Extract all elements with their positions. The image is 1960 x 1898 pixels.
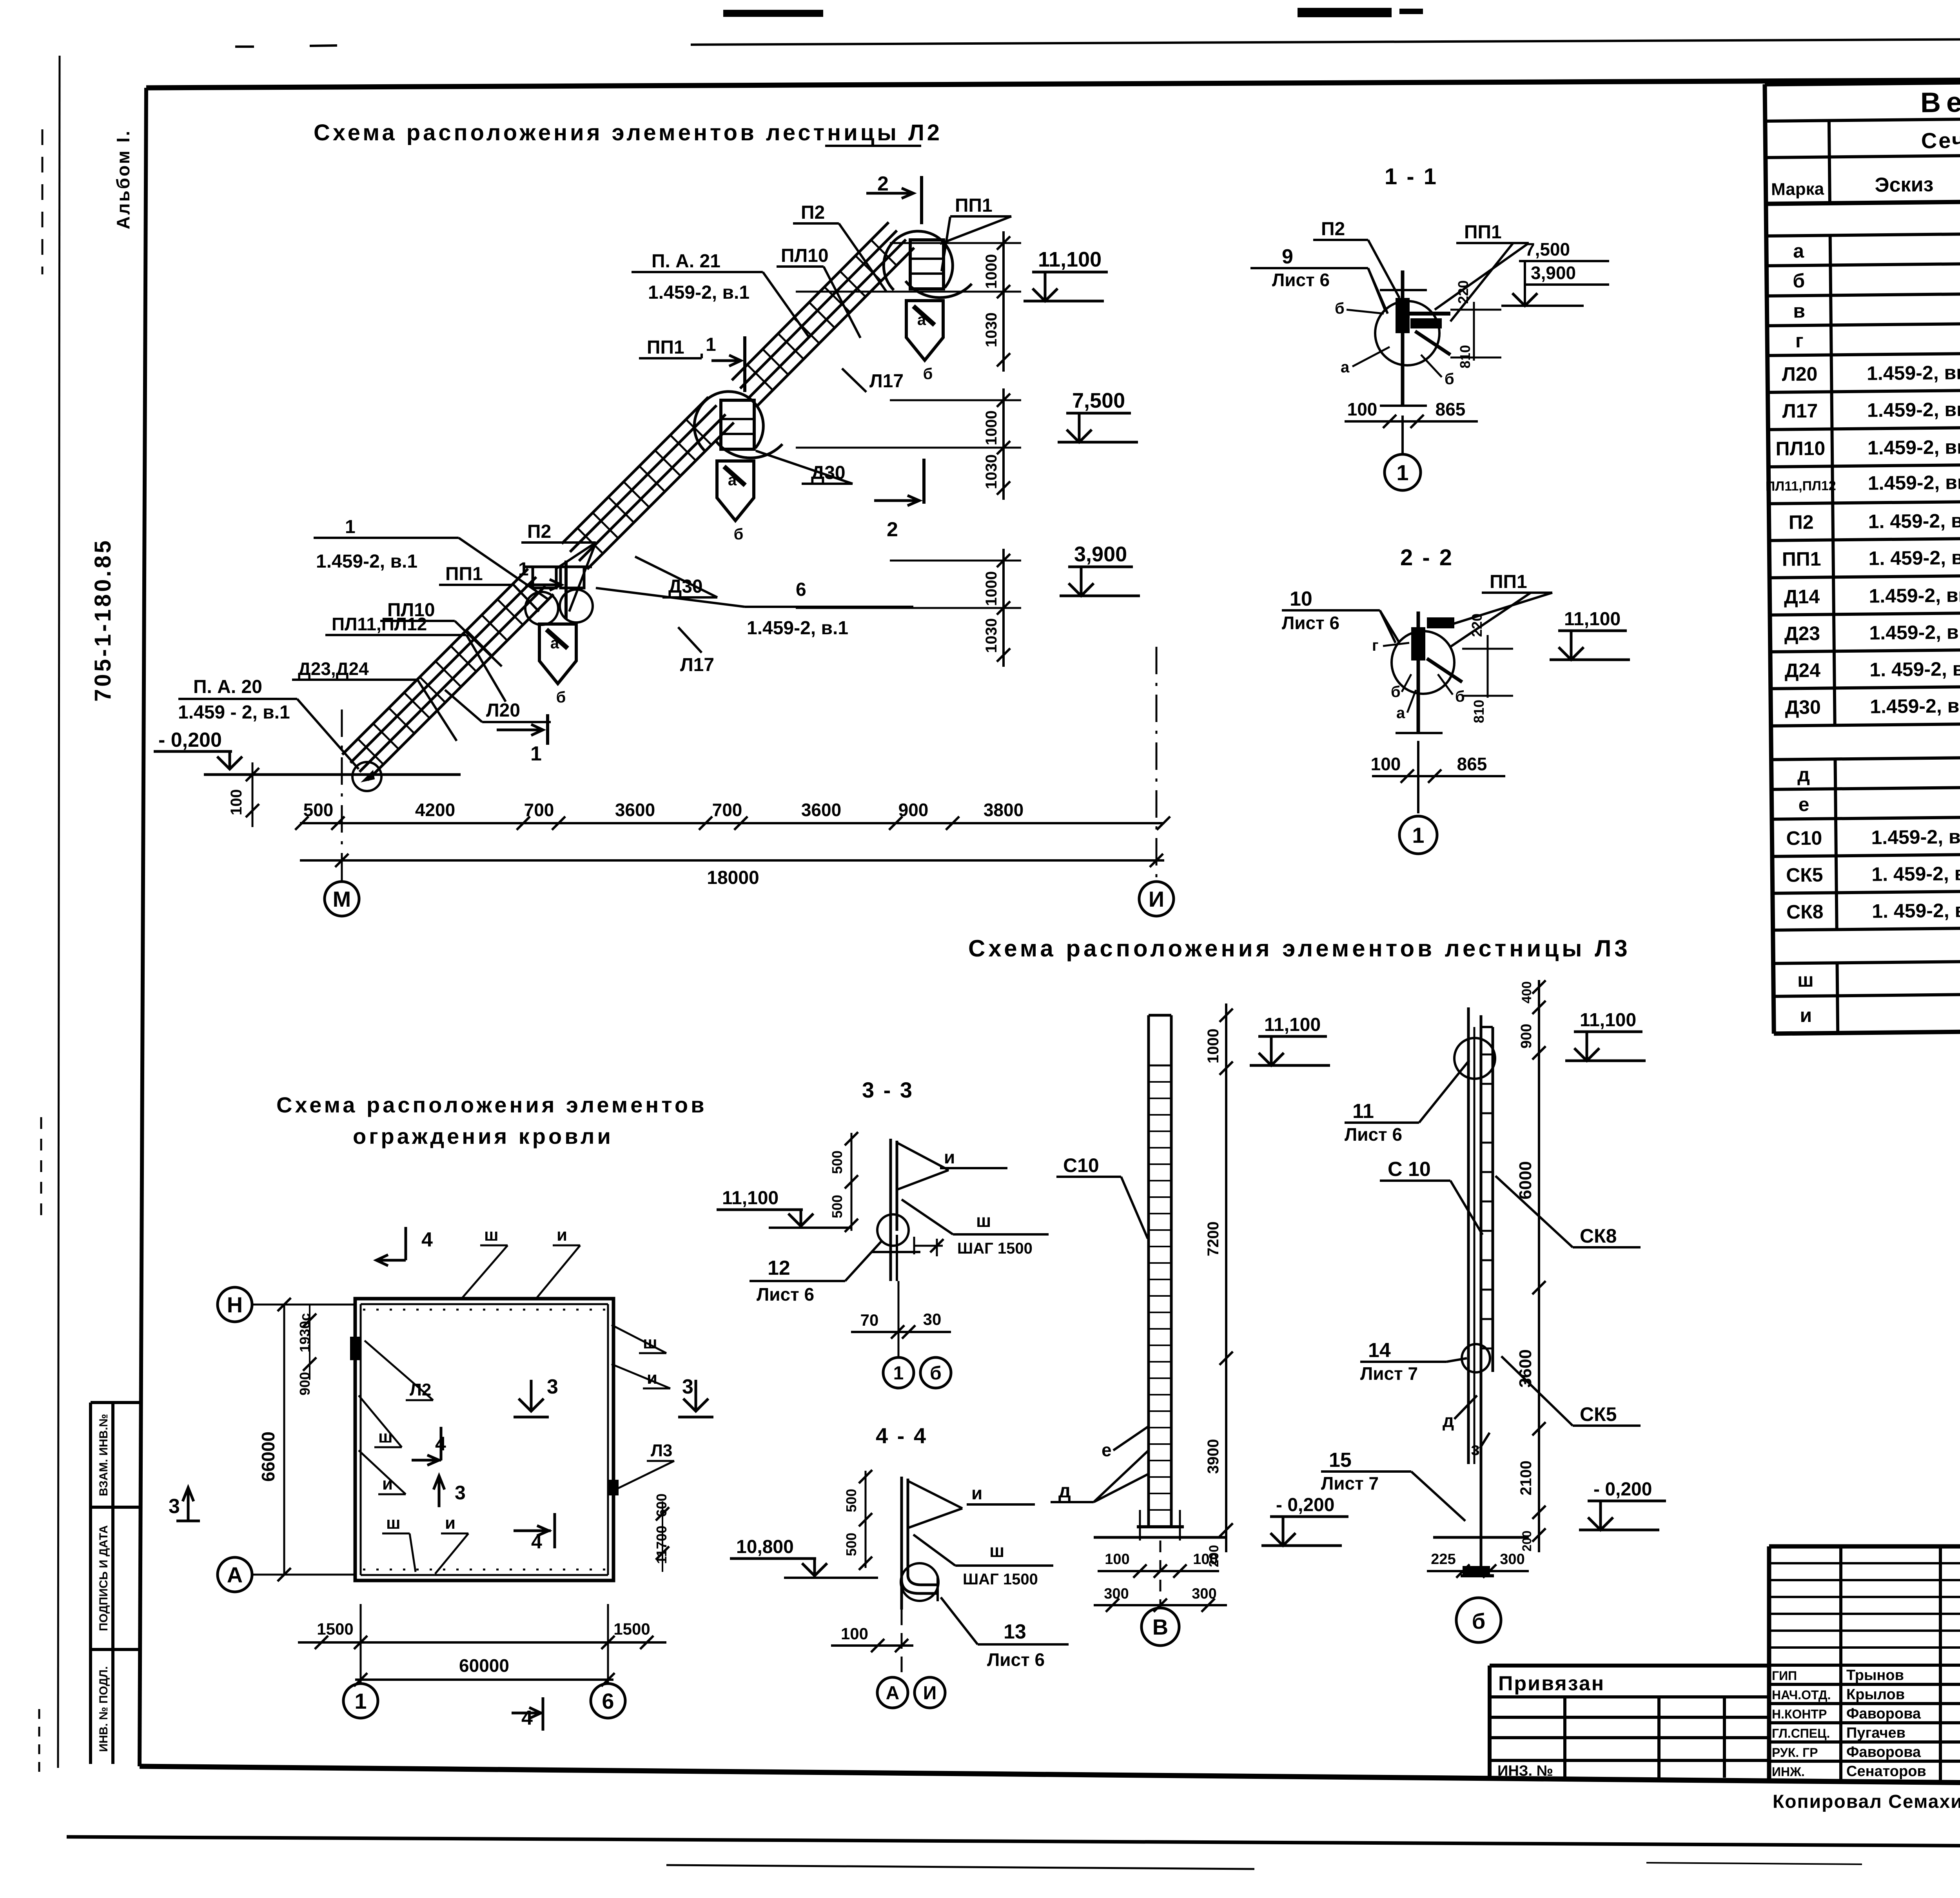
svg-text:500: 500 xyxy=(843,1489,859,1512)
svg-text:Эскиз: Эскиз xyxy=(1875,173,1933,196)
svg-text:11: 11 xyxy=(1352,1100,1374,1123)
svg-text:1030: 1030 xyxy=(983,312,1000,347)
svg-text:НАЧ.ОТД.: НАЧ.ОТД. xyxy=(1772,1688,1831,1702)
left margin stamp strip xyxy=(89,1403,92,1764)
svg-text:ИНЖ.: ИНЖ. xyxy=(1772,1765,1805,1779)
svg-text:ПЛ11,ПЛ12: ПЛ11,ПЛ12 xyxy=(332,614,427,634)
svg-text:6000: 6000 xyxy=(1516,1161,1535,1199)
svg-text:810: 810 xyxy=(1471,700,1487,723)
svg-text:200: 200 xyxy=(1520,1531,1534,1551)
svg-text:1.459-2, вып. 2: 1.459-2, вып. 2 xyxy=(1868,471,1960,494)
title block xyxy=(1767,1546,1771,1783)
svg-text:100: 100 xyxy=(1193,1551,1218,1568)
svg-text:500: 500 xyxy=(303,800,334,820)
svg-text:1.459-2, вып. 1: 1.459-2, вып. 1 xyxy=(1869,621,1960,644)
svg-text:з: з xyxy=(1471,1439,1480,1459)
svg-text:ПП1: ПП1 xyxy=(647,337,684,358)
svg-text:220: 220 xyxy=(1455,280,1471,304)
svg-text:300: 300 xyxy=(1104,1586,1129,1602)
svg-text:15: 15 xyxy=(1329,1449,1352,1472)
svg-text:1.459-2, вып. 2: 1.459-2, вып. 2 xyxy=(1867,361,1960,384)
svg-text:4 - 4: 4 - 4 xyxy=(876,1423,927,1448)
svg-text:ш: ш xyxy=(484,1225,499,1245)
svg-text:220: 220 xyxy=(1469,613,1485,637)
svg-text:865: 865 xyxy=(1457,754,1487,774)
svg-text:1000: 1000 xyxy=(1205,1029,1222,1063)
svg-text:1000: 1000 xyxy=(983,571,1000,606)
svg-text:Л20: Л20 xyxy=(486,700,520,721)
svg-text:1. 459-2, вып.2: 1. 459-2, вып.2 xyxy=(1871,862,1960,885)
svg-text:ПЛ10: ПЛ10 xyxy=(781,245,829,266)
svg-text:2 - 2: 2 - 2 xyxy=(1400,545,1454,570)
svg-text:6: 6 xyxy=(602,1689,614,1713)
svg-text:ШАГ 1500: ШАГ 1500 xyxy=(957,1240,1033,1257)
svg-text:г: г xyxy=(1372,637,1379,654)
svg-text:1000: 1000 xyxy=(983,410,1000,445)
svg-text:4: 4 xyxy=(421,1228,433,1251)
svg-text:1500: 1500 xyxy=(613,1620,650,1638)
svg-text:Н: Н xyxy=(227,1292,243,1317)
flight 3 xyxy=(757,248,914,406)
svg-text:- 0,200: - 0,200 xyxy=(158,729,222,751)
svg-text:1.459-2, в.1: 1.459-2, в.1 xyxy=(747,618,848,639)
svg-text:1030: 1030 xyxy=(983,454,1000,489)
svg-text:П. А. 21: П. А. 21 xyxy=(652,251,720,272)
svg-text:ПП1: ПП1 xyxy=(1464,222,1502,243)
svg-text:ш: ш xyxy=(989,1541,1004,1561)
svg-text:ограждения кровли: ограждения кровли xyxy=(353,1124,613,1149)
svg-text:100: 100 xyxy=(1105,1551,1129,1568)
svg-text:Трынов: Трынов xyxy=(1846,1667,1904,1684)
svg-text:9: 9 xyxy=(1282,245,1293,268)
svg-text:б: б xyxy=(1793,270,1805,292)
svg-text:2: 2 xyxy=(887,518,898,541)
svg-text:70: 70 xyxy=(860,1311,879,1329)
svg-text:1.459-2, в.1: 1.459-2, в.1 xyxy=(316,551,417,572)
svg-text:- 0,200: - 0,200 xyxy=(1593,1479,1652,1500)
svg-text:1000: 1000 xyxy=(983,254,1000,289)
svg-text:60000: 60000 xyxy=(459,1655,509,1676)
svg-text:Ведомость элементов: Ведомость элементов xyxy=(1920,83,1960,118)
svg-text:СК5: СК5 xyxy=(1580,1403,1617,1425)
svg-text:1500: 1500 xyxy=(317,1620,353,1638)
svg-text:П2: П2 xyxy=(801,202,825,223)
svg-text:С 10: С 10 xyxy=(1388,1158,1431,1181)
svg-text:Лист 6: Лист 6 xyxy=(757,1284,814,1305)
svg-text:1. 459-2, вып. 2: 1. 459-2, вып. 2 xyxy=(1868,509,1960,533)
svg-text:7,500: 7,500 xyxy=(1072,389,1125,412)
svg-text:б: б xyxy=(1455,688,1465,705)
svg-text:д: д xyxy=(1058,1480,1071,1502)
svg-text:и: и xyxy=(557,1225,567,1245)
svg-text:3,900: 3,900 xyxy=(1531,263,1576,283)
svg-text:в: в xyxy=(1793,300,1805,322)
svg-text:6: 6 xyxy=(796,579,806,600)
svg-text:100: 100 xyxy=(228,789,245,815)
svg-text:Фаворова: Фаворова xyxy=(1846,1706,1921,1722)
svg-text:Сенаторов: Сенаторов xyxy=(1846,1763,1926,1780)
L2 right dim chains xyxy=(1002,231,1005,372)
svg-text:Привязан: Привязан xyxy=(1498,1672,1605,1695)
svg-text:11,100: 11,100 xyxy=(722,1188,779,1208)
svg-text:1: 1 xyxy=(706,334,716,355)
paper top edge line xyxy=(691,37,1960,45)
svg-text:г: г xyxy=(1795,330,1804,352)
svg-text:3 - 3: 3 - 3 xyxy=(862,1078,914,1102)
svg-text:б: б xyxy=(1335,300,1345,317)
flight 2 xyxy=(587,423,734,569)
svg-text:500: 500 xyxy=(829,1150,845,1174)
svg-text:225: 225 xyxy=(1431,1551,1455,1568)
svg-text:Л20: Л20 xyxy=(1782,363,1817,385)
svg-text:12: 12 xyxy=(768,1257,790,1279)
svg-text:Лист 7: Лист 7 xyxy=(1321,1473,1379,1493)
svg-text:- 0,200: - 0,200 xyxy=(1276,1495,1334,1515)
svg-text:Лист 7: Лист 7 xyxy=(1360,1363,1418,1384)
svg-text:а: а xyxy=(917,311,926,328)
svg-text:СК8: СК8 xyxy=(1580,1225,1617,1247)
svg-text:3600: 3600 xyxy=(1516,1349,1535,1388)
svg-text:А: А xyxy=(227,1562,243,1587)
column C10 elevation xyxy=(1147,1015,1150,1527)
svg-text:Схема расположения элементов л: Схема расположения элементов лестницы Л3 xyxy=(968,935,1631,962)
svg-text:30: 30 xyxy=(923,1310,942,1328)
svg-text:СК5: СК5 xyxy=(1786,864,1823,886)
svg-text:И: И xyxy=(1149,887,1164,911)
svg-text:и: и xyxy=(445,1513,456,1533)
drawing frame left xyxy=(140,88,146,1766)
svg-text:10,800: 10,800 xyxy=(736,1537,794,1557)
ladder SK8/SK5 elevation xyxy=(1467,1007,1470,1464)
svg-text:ш: ш xyxy=(386,1513,401,1533)
svg-text:а: а xyxy=(1341,359,1350,376)
svg-text:500: 500 xyxy=(829,1195,845,1218)
svg-text:1.459-2, вып. 2: 1.459-2, вып. 2 xyxy=(1867,398,1960,421)
svg-text:ПП1: ПП1 xyxy=(955,195,993,216)
svg-text:1: 1 xyxy=(893,1363,904,1384)
svg-text:Н.КОНТР: Н.КОНТР xyxy=(1772,1707,1827,1721)
svg-text:1: 1 xyxy=(1396,460,1408,485)
svg-text:П2: П2 xyxy=(1789,511,1814,533)
svg-text:3600: 3600 xyxy=(615,800,655,820)
svg-text:ПП1: ПП1 xyxy=(445,564,483,584)
svg-text:865: 865 xyxy=(1436,399,1466,419)
svg-text:1. 459-2, вып.2: 1. 459-2, вып.2 xyxy=(1872,899,1960,922)
flight 1 xyxy=(368,594,554,780)
svg-text:Л3: Л3 xyxy=(651,1441,672,1460)
svg-text:Л17: Л17 xyxy=(869,371,904,392)
svg-text:д: д xyxy=(1443,1410,1454,1431)
svg-text:7,500: 7,500 xyxy=(1525,239,1570,259)
svg-text:и: и xyxy=(944,1147,955,1167)
svg-text:д: д xyxy=(1797,764,1810,786)
svg-text:3: 3 xyxy=(547,1375,558,1398)
svg-text:7200: 7200 xyxy=(1205,1221,1222,1256)
svg-text:Д30: Д30 xyxy=(1785,696,1821,719)
svg-text:С10: С10 xyxy=(1063,1154,1099,1176)
svg-text:ВЗАМ. ИНВ.№: ВЗАМ. ИНВ.№ xyxy=(97,1414,110,1496)
privyazan table xyxy=(1490,1664,1769,1668)
svg-text:Лист 6: Лист 6 xyxy=(1272,270,1330,290)
svg-text:ГЛ.СПЕЦ.: ГЛ.СПЕЦ. xyxy=(1772,1726,1830,1740)
svg-text:1.459-2, вып.1: 1.459-2, вып.1 xyxy=(1871,825,1960,848)
svg-text:14: 14 xyxy=(1368,1339,1391,1362)
svg-text:СК8: СК8 xyxy=(1786,901,1824,923)
svg-text:б: б xyxy=(923,365,933,383)
svg-text:Д23: Д23 xyxy=(1784,622,1820,645)
svg-text:б: б xyxy=(1391,683,1401,700)
svg-text:1. 459-2, вып. 2: 1. 459-2, вып. 2 xyxy=(1868,546,1960,570)
roof plan square xyxy=(355,1299,613,1580)
paper left edge lines xyxy=(58,56,60,1768)
svg-text:700: 700 xyxy=(524,800,554,820)
svg-text:100: 100 xyxy=(1347,399,1377,419)
svg-text:ПП1: ПП1 xyxy=(1490,572,1527,592)
svg-text:ш: ш xyxy=(378,1427,393,1446)
elements list table xyxy=(1762,77,1960,1034)
landing 1 xyxy=(533,567,556,588)
svg-text:РУК. ГР: РУК. ГР xyxy=(1772,1746,1818,1760)
svg-text:700: 700 xyxy=(712,800,742,820)
svg-text:1: 1 xyxy=(530,742,542,765)
svg-text:С10: С10 xyxy=(1786,827,1822,849)
svg-text:18000: 18000 xyxy=(707,867,759,888)
svg-text:Л17: Л17 xyxy=(680,655,714,675)
svg-text:П2: П2 xyxy=(1321,219,1345,240)
svg-text:и: и xyxy=(647,1368,657,1388)
svg-text:Альбом I.: Альбом I. xyxy=(113,129,133,229)
svg-text:1.459 - 2, в.1: 1.459 - 2, в.1 xyxy=(178,702,290,723)
paper bottom edge line xyxy=(67,1837,1960,1849)
svg-text:а: а xyxy=(1396,704,1405,722)
svg-text:4200: 4200 xyxy=(415,800,455,820)
svg-text:10: 10 xyxy=(1290,588,1312,610)
svg-text:13: 13 xyxy=(1004,1620,1026,1643)
svg-text:1030: 1030 xyxy=(983,618,1000,653)
svg-text:11,100: 11,100 xyxy=(1038,248,1102,271)
svg-text:1: 1 xyxy=(345,517,356,537)
svg-text:ш: ш xyxy=(1797,969,1814,991)
svg-text:Схема расположения элементов: Схема расположения элементов лестницы Л2 xyxy=(314,120,942,145)
landing 3 (top) xyxy=(910,240,944,289)
svg-text:ИНВ. № ПОДЛ.: ИНВ. № ПОДЛ. xyxy=(97,1666,110,1752)
svg-text:500: 500 xyxy=(843,1533,859,1556)
svg-text:е: е xyxy=(1798,793,1809,815)
svg-text:2: 2 xyxy=(877,172,889,195)
svg-text:ПЛ10: ПЛ10 xyxy=(1775,437,1825,460)
svg-text:1 - 1: 1 - 1 xyxy=(1385,164,1438,189)
svg-text:1.459-2, в.1: 1.459-2, в.1 xyxy=(648,282,750,303)
svg-text:66000: 66000 xyxy=(258,1432,278,1482)
svg-text:3: 3 xyxy=(169,1495,180,1518)
svg-text:е: е xyxy=(1102,1440,1112,1460)
svg-text:Копировал Семахина: Копировал Семахина xyxy=(1773,1791,1960,1812)
svg-text:3800: 3800 xyxy=(984,800,1024,820)
svg-text:100: 100 xyxy=(841,1624,868,1643)
svg-text:ПОДПИСЬ И ДАТА: ПОДПИСЬ И ДАТА xyxy=(97,1525,110,1631)
svg-text:ш: ш xyxy=(976,1210,991,1231)
svg-text:1.459-2, вып. 2: 1.459-2, вып. 2 xyxy=(1867,435,1960,459)
svg-text:11,100: 11,100 xyxy=(1580,1010,1636,1031)
svg-text:Крылов: Крылов xyxy=(1846,1686,1905,1703)
svg-text:ПЛ11,ПЛ12: ПЛ11,ПЛ12 xyxy=(1766,478,1836,494)
svg-text:3900: 3900 xyxy=(1205,1439,1222,1474)
svg-text:а: а xyxy=(728,472,737,489)
svg-text:а: а xyxy=(550,635,559,652)
svg-text:В: В xyxy=(1152,1615,1168,1639)
svg-text:Д23,Д24: Д23,Д24 xyxy=(298,659,369,679)
svg-text:ГИП: ГИП xyxy=(1772,1669,1797,1683)
svg-text:б: б xyxy=(1445,370,1454,388)
svg-text:Фаворова: Фаворова xyxy=(1846,1744,1921,1760)
svg-text:11,100: 11,100 xyxy=(1564,609,1621,630)
svg-text:3: 3 xyxy=(682,1375,693,1398)
svg-text:900: 900 xyxy=(898,800,929,820)
svg-text:ИНЗ. №: ИНЗ. № xyxy=(1497,1763,1553,1779)
L2 bottom dimensions xyxy=(300,822,1164,824)
svg-text:3: 3 xyxy=(455,1482,466,1504)
svg-text:б: б xyxy=(930,1363,942,1384)
svg-text:б: б xyxy=(734,526,744,543)
svg-text:705-1-180.85: 705-1-180.85 xyxy=(90,538,116,702)
svg-text:А: А xyxy=(886,1683,900,1704)
svg-text:И: И xyxy=(923,1683,937,1704)
svg-text:400: 400 xyxy=(1519,981,1534,1003)
svg-text:Лист 6: Лист 6 xyxy=(987,1649,1045,1670)
svg-text:1: 1 xyxy=(1412,823,1424,847)
drawing frame top xyxy=(146,78,1960,88)
svg-text:Лист 6: Лист 6 xyxy=(1282,613,1339,633)
drawing frame bottom xyxy=(140,1766,1960,1788)
svg-text:3600: 3600 xyxy=(801,800,841,820)
svg-text:1.459-2, вып.2: 1.459-2, вып.2 xyxy=(1869,584,1960,607)
svg-text:и: и xyxy=(1800,1004,1812,1026)
svg-text:Схема расположения элементов: Схема расположения элементов xyxy=(276,1092,707,1117)
svg-text:Л17: Л17 xyxy=(1782,400,1818,422)
svg-text:Марка: Марка xyxy=(1771,180,1824,199)
svg-text:б: б xyxy=(556,689,566,706)
svg-text:а: а xyxy=(1793,240,1805,262)
svg-text:Лист 6: Лист 6 xyxy=(1345,1124,1402,1145)
landing 2 xyxy=(721,400,754,449)
svg-text:Д24: Д24 xyxy=(1784,659,1820,682)
svg-text:П. А. 20: П. А. 20 xyxy=(193,677,262,697)
svg-text:Д14: Д14 xyxy=(1784,586,1820,608)
svg-text:100: 100 xyxy=(1371,754,1401,774)
svg-text:М: М xyxy=(333,887,351,911)
svg-text:11,100: 11,100 xyxy=(1264,1014,1321,1035)
svg-text:2100: 2100 xyxy=(1517,1461,1535,1495)
svg-text:1: 1 xyxy=(518,559,529,580)
svg-text:б: б xyxy=(1472,1609,1486,1633)
svg-text:и: и xyxy=(971,1483,982,1503)
svg-text:Сечение: Сечение xyxy=(1921,127,1960,153)
svg-text:1. 459-2, вып.1: 1. 459-2, вып.1 xyxy=(1869,657,1960,680)
svg-text:ПП1: ПП1 xyxy=(1782,548,1821,570)
svg-text:Пугачев: Пугачев xyxy=(1846,1725,1906,1741)
svg-text:900: 900 xyxy=(1518,1024,1535,1049)
svg-text:1.459-2, вып.1: 1.459-2, вып.1 xyxy=(1870,694,1960,717)
svg-text:3,900: 3,900 xyxy=(1074,543,1127,566)
svg-text:П2: П2 xyxy=(527,521,551,542)
svg-text:300: 300 xyxy=(1500,1551,1524,1568)
svg-text:1: 1 xyxy=(354,1689,367,1713)
svg-text:ШАГ 1500: ШАГ 1500 xyxy=(963,1571,1038,1588)
